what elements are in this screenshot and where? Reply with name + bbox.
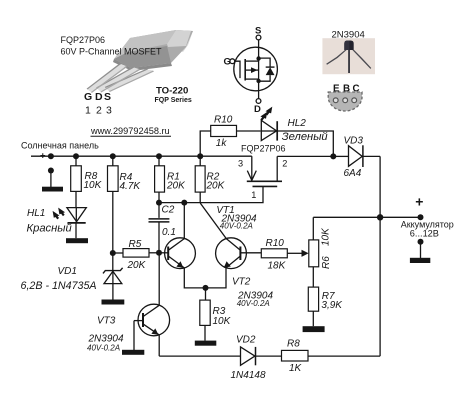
- resistor R8 (1K): [282, 350, 309, 361]
- wire R8 to HL1: [75, 191, 77, 207]
- svg-text:Солнечная панель: Солнечная панель: [21, 141, 99, 151]
- svg-text:R6: R6: [321, 256, 332, 269]
- svg-text:R10: R10: [266, 238, 285, 249]
- junction dot rail/R1: [156, 153, 162, 159]
- source-drain vertical: [258, 58, 260, 81]
- wire R10 to HL2: [237, 130, 261, 132]
- resistor R7: [308, 287, 318, 311]
- svg-text:1: 1: [251, 190, 256, 200]
- svg-text:1N4148: 1N4148: [231, 370, 266, 381]
- svg-text:2: 2: [282, 158, 287, 168]
- junction dot rail/R4: [110, 153, 116, 159]
- junction dot battery line: [377, 214, 383, 220]
- svg-text:20K: 20K: [206, 181, 226, 192]
- svg-text:6A4: 6A4: [344, 168, 362, 179]
- svg-text:HL2: HL2: [288, 118, 307, 129]
- wire node A (R1/R2 bottom to gate): [159, 186, 263, 202]
- svg-text:40V-0.2A: 40V-0.2A: [87, 343, 120, 352]
- svg-text:Зеленый: Зеленый: [282, 131, 328, 143]
- svg-text:HL1: HL1: [27, 208, 45, 219]
- svg-text:60V P-Channel MOSFET: 60V P-Channel MOSFET: [61, 47, 163, 57]
- svg-text:C2: C2: [162, 205, 175, 216]
- svg-text:TO-220: TO-220: [156, 86, 188, 97]
- junction dot VD3 anode: [330, 153, 336, 159]
- pin S terminal: [256, 35, 261, 40]
- wire VD2 to R8: [256, 355, 282, 357]
- body stub with arrow: [245, 69, 258, 71]
- resistor R10 (18K): [261, 249, 287, 258]
- transistor VT2: [206, 238, 262, 288]
- TO-220 package photo: [87, 30, 193, 93]
- svg-text:20K: 20K: [127, 260, 147, 271]
- svg-text:+: +: [40, 151, 46, 162]
- svg-text:FQP Series: FQP Series: [155, 97, 192, 104]
- resistor R8: [75, 156, 77, 166]
- junction dot VT1 base node: [156, 250, 162, 256]
- wire S lead: [258, 40, 260, 61]
- ground VT3: [122, 350, 144, 355]
- wire top rail: [31, 155, 252, 157]
- svg-text:3,9K: 3,9K: [321, 300, 343, 311]
- svg-text:40V-0.2A: 40V-0.2A: [220, 222, 253, 231]
- svg-text:2: 2: [96, 105, 102, 117]
- svg-text:1: 1: [85, 105, 91, 117]
- svg-text:VD2: VD2: [236, 334, 256, 345]
- pin G terminal: [230, 59, 235, 64]
- diode VD3: [333, 155, 348, 157]
- svg-text:VD1: VD1: [58, 266, 77, 277]
- svg-text:VD3: VD3: [344, 136, 364, 147]
- potentiometer R6: [309, 240, 319, 267]
- svg-text:VT3: VT3: [97, 316, 116, 327]
- zener diode VD1: [112, 253, 114, 271]
- svg-text:1K: 1K: [289, 363, 303, 374]
- wire gate lead: [235, 61, 240, 78]
- LED HL2: [261, 120, 276, 140]
- wire right vertical (VD3 to bottom): [379, 156, 381, 356]
- junction dot rail/R2: [197, 153, 203, 159]
- drain stub: [245, 78, 258, 80]
- battery + terminal: [418, 214, 424, 220]
- svg-text:10K: 10K: [84, 180, 103, 191]
- svg-text:VT2: VT2: [232, 277, 251, 288]
- svg-text:FQP27P06: FQP27P06: [241, 144, 286, 154]
- svg-text:S: S: [255, 26, 261, 37]
- MOSFET pinout symbol (circle): [224, 26, 278, 116]
- wire R8 to right vertical: [308, 355, 380, 357]
- svg-text:+: +: [415, 194, 423, 210]
- pin numbers 1 2 3: [85, 105, 112, 117]
- pin D terminal: [258, 81, 260, 98]
- pin letters G D S: [84, 91, 111, 103]
- svg-text:www.299792458.ru: www.299792458.ru: [90, 126, 170, 136]
- LED HL1: [67, 208, 86, 222]
- HL2 light arrows: [260, 107, 272, 119]
- wire to R6 top: [312, 217, 314, 240]
- wire battery line: [313, 216, 420, 218]
- junction dot emitters: [203, 285, 209, 291]
- svg-text:D: D: [95, 91, 103, 103]
- body diode: [259, 58, 271, 67]
- wire bottom (VT3 emitter to VD2): [159, 355, 240, 357]
- gate channel bar: [244, 59, 246, 81]
- resistor R3: [205, 288, 207, 300]
- battery - terminal: [418, 239, 424, 245]
- svg-text:Красный: Красный: [27, 222, 72, 234]
- junction dot rail/solar: [48, 153, 54, 159]
- svg-text:3: 3: [238, 159, 243, 169]
- svg-text:3: 3: [106, 105, 112, 117]
- pin labels E B C: [333, 84, 360, 95]
- 2N3904 pinout bottom view: [328, 92, 362, 111]
- svg-text:G: G: [224, 56, 231, 67]
- HL1 light arrows: [53, 208, 65, 218]
- solar panel symbol: [48, 168, 54, 174]
- svg-text:R5: R5: [129, 239, 142, 250]
- transistor VT3: [134, 253, 170, 356]
- resistor R10 (1k): [211, 125, 237, 136]
- svg-text:10K: 10K: [320, 227, 331, 246]
- wire HL2 to VD3 node: [277, 131, 333, 156]
- svg-text:40V-0.2A: 40V-0.2A: [237, 299, 270, 308]
- svg-text:10K: 10K: [213, 316, 232, 327]
- svg-text:R10: R10: [214, 114, 233, 125]
- wire R10 to R6 wiper arrow: [287, 252, 302, 254]
- wire rail to R10 1k: [200, 131, 211, 156]
- source stub: [245, 60, 258, 62]
- wire R2 to VT2 collector: [200, 203, 226, 239]
- wire R6 to R7: [312, 267, 314, 287]
- svg-text:S: S: [104, 91, 111, 103]
- 2N3904 photo: [322, 38, 375, 74]
- svg-text:R8: R8: [287, 339, 300, 350]
- resistor R2: [199, 156, 201, 166]
- resistor R5: [113, 252, 123, 254]
- junction dot node A left: [156, 200, 162, 206]
- capacitor C2: [158, 203, 160, 218]
- svg-text:6,2В - 1N4735А: 6,2В - 1N4735А: [21, 280, 97, 292]
- transistor VT1: [159, 203, 206, 288]
- wire R4 to R5 node: [112, 191, 114, 253]
- resistor R1: [158, 156, 160, 166]
- wire pin2 top: [277, 155, 333, 157]
- diode VD2: [241, 347, 255, 365]
- junction dot R4/R5/VD1: [110, 250, 116, 256]
- svg-text:0.1: 0.1: [162, 227, 176, 238]
- svg-text:FQP27P06: FQP27P06: [61, 35, 106, 45]
- svg-text:4.7K: 4.7K: [120, 181, 142, 192]
- transistor FQP27P06 (power MOSFET): [247, 156, 282, 186]
- resistor R4: [112, 156, 114, 166]
- svg-text:6...12В: 6...12В: [410, 229, 439, 239]
- svg-text:1k: 1k: [216, 138, 228, 149]
- svg-text:20K: 20K: [166, 181, 186, 192]
- svg-text:18K: 18K: [268, 260, 287, 271]
- junction dot VT1 collector: [181, 200, 187, 206]
- svg-text:D: D: [254, 104, 261, 115]
- junction dot rail/R8: [73, 153, 79, 159]
- svg-text:G: G: [84, 91, 92, 103]
